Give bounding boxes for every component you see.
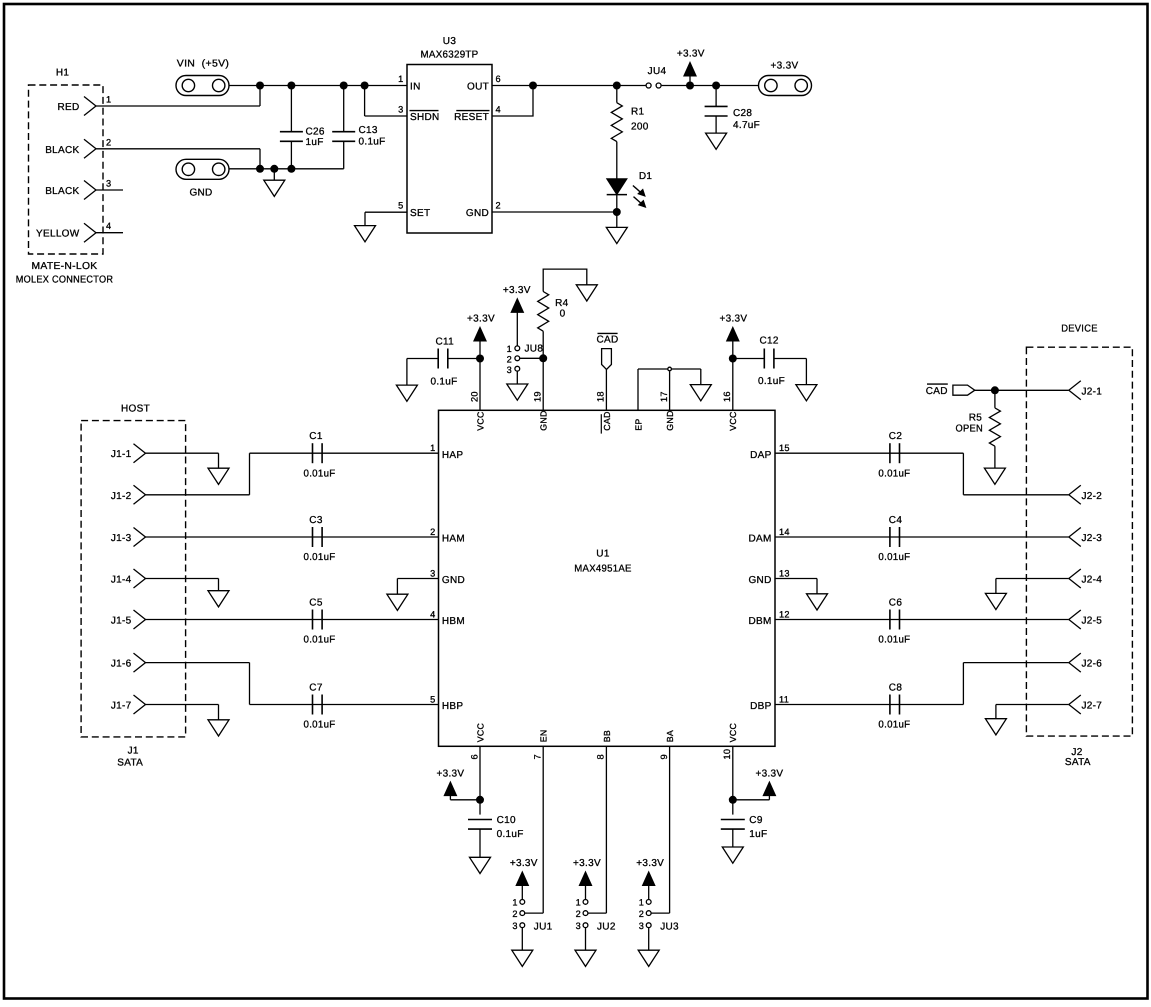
svg-text:3: 3 [576, 921, 581, 931]
svg-text:J1-4: J1-4 [111, 575, 132, 586]
svg-text:0.01uF: 0.01uF [304, 468, 336, 479]
svg-text:15: 15 [779, 443, 790, 453]
svg-text:R1: R1 [631, 107, 645, 118]
svg-text:4: 4 [430, 609, 435, 619]
svg-text:5: 5 [430, 694, 435, 704]
svg-text:4: 4 [496, 105, 501, 115]
svg-text:OUT: OUT [467, 82, 489, 93]
svg-text:2: 2 [507, 355, 512, 365]
svg-text:JU2: JU2 [597, 921, 616, 932]
svg-text:DAP: DAP [750, 450, 771, 461]
svg-text:+3.3V: +3.3V [573, 858, 601, 869]
svg-text:C13: C13 [359, 125, 378, 136]
svg-text:+3.3V: +3.3V [636, 858, 664, 869]
svg-text:0.01uF: 0.01uF [878, 552, 910, 563]
svg-text:C4: C4 [889, 515, 903, 526]
svg-text:HBP: HBP [442, 701, 463, 712]
svg-text:GND: GND [748, 575, 771, 586]
svg-text:3: 3 [398, 105, 403, 115]
svg-text:RED: RED [57, 102, 79, 113]
svg-text:6: 6 [496, 74, 501, 84]
svg-text:HBM: HBM [442, 616, 465, 627]
svg-text:C28: C28 [733, 108, 752, 119]
svg-text:0.01uF: 0.01uF [304, 552, 336, 563]
svg-text:J2-3: J2-3 [1082, 533, 1103, 544]
svg-text:VCC: VCC [475, 722, 485, 742]
svg-text:1: 1 [639, 898, 644, 908]
svg-text:EP: EP [633, 418, 643, 430]
svg-text:200: 200 [631, 122, 649, 133]
svg-text:2: 2 [512, 909, 517, 919]
svg-text:MOLEX CONNECTOR: MOLEX CONNECTOR [16, 275, 114, 286]
svg-text:2: 2 [430, 527, 435, 537]
svg-text:+3.3V: +3.3V [503, 285, 531, 296]
svg-text:J2-1: J2-1 [1082, 386, 1103, 397]
svg-text:+3.3V: +3.3V [677, 49, 705, 60]
svg-text:0.1uF: 0.1uF [359, 136, 386, 147]
svg-text:+3.3V: +3.3V [467, 314, 495, 325]
svg-text:BB: BB [602, 730, 612, 742]
svg-text:C3: C3 [309, 515, 323, 526]
svg-text:J2-7: J2-7 [1082, 701, 1103, 712]
svg-text:1: 1 [398, 74, 403, 84]
svg-text:MAX6329TP: MAX6329TP [421, 50, 479, 61]
svg-text:C9: C9 [749, 815, 763, 826]
svg-text:1: 1 [507, 344, 512, 354]
svg-text:17: 17 [659, 391, 669, 402]
svg-text:6: 6 [469, 754, 479, 759]
svg-text:0.01uF: 0.01uF [304, 720, 336, 731]
svg-text:0.01uF: 0.01uF [878, 635, 910, 646]
svg-text:IN: IN [410, 82, 421, 93]
svg-text:R5: R5 [969, 413, 983, 424]
svg-text:DBP: DBP [750, 701, 771, 712]
svg-text:VCC: VCC [728, 411, 738, 431]
svg-text:C6: C6 [889, 597, 903, 608]
svg-text:GND: GND [665, 410, 675, 430]
svg-text:EN: EN [539, 729, 549, 742]
svg-text:4: 4 [106, 221, 111, 231]
svg-text:J1-1: J1-1 [111, 449, 132, 460]
svg-text:4.7uF: 4.7uF [733, 120, 760, 131]
svg-text:J1: J1 [128, 745, 139, 756]
svg-text:C11: C11 [436, 337, 455, 348]
svg-text:+3.3V: +3.3V [436, 768, 464, 779]
svg-text:BLACK: BLACK [45, 186, 79, 197]
svg-text:3: 3 [430, 568, 435, 578]
svg-text:GND: GND [189, 188, 212, 199]
svg-text:13: 13 [779, 568, 790, 578]
svg-text:C2: C2 [889, 431, 903, 442]
svg-text:3: 3 [106, 179, 111, 189]
svg-text:J1-3: J1-3 [111, 533, 132, 544]
svg-text:0: 0 [560, 309, 566, 320]
svg-text:DEVICE: DEVICE [1061, 324, 1098, 335]
svg-text:HOST: HOST [121, 404, 150, 415]
svg-text:C12: C12 [759, 335, 778, 346]
svg-text:BLACK: BLACK [45, 145, 79, 156]
svg-text:J2-2: J2-2 [1082, 491, 1103, 502]
svg-text:J2-6: J2-6 [1082, 659, 1103, 670]
svg-text:VIN (+5V): VIN (+5V) [177, 59, 230, 70]
svg-text:JU4: JU4 [648, 66, 667, 77]
svg-text:JU8: JU8 [525, 344, 544, 355]
svg-text:GND: GND [466, 208, 489, 219]
svg-text:+3.3V: +3.3V [771, 61, 799, 72]
svg-text:C5: C5 [309, 597, 323, 608]
svg-text:2: 2 [496, 201, 501, 211]
svg-text:J2-5: J2-5 [1082, 616, 1103, 627]
svg-text:J1-6: J1-6 [111, 659, 132, 670]
svg-text:VCC: VCC [728, 722, 738, 742]
svg-text:+3.3V: +3.3V [719, 314, 747, 325]
svg-text:0.1uF: 0.1uF [758, 376, 785, 387]
svg-text:OPEN: OPEN [956, 424, 984, 435]
svg-text:J1-7: J1-7 [111, 701, 132, 712]
svg-text:1: 1 [576, 898, 581, 908]
svg-text:12: 12 [779, 609, 790, 619]
svg-text:SATA: SATA [117, 757, 143, 768]
svg-text:2: 2 [576, 909, 581, 919]
svg-text:BA: BA [665, 730, 675, 742]
svg-text:C1: C1 [309, 431, 323, 442]
svg-text:MATE-N-LOK: MATE-N-LOK [32, 261, 98, 272]
svg-text:C8: C8 [889, 682, 903, 693]
svg-text:CAD: CAD [926, 386, 948, 397]
svg-text:U3: U3 [443, 36, 457, 47]
svg-text:CAD: CAD [596, 334, 618, 345]
svg-text:3: 3 [507, 365, 512, 375]
svg-text:GND: GND [442, 575, 465, 586]
svg-text:CAD: CAD [602, 411, 612, 430]
svg-text:1uF: 1uF [306, 137, 324, 148]
svg-text:DAM: DAM [748, 534, 771, 545]
svg-text:16: 16 [722, 391, 732, 402]
svg-text:1uF: 1uF [749, 829, 767, 840]
svg-text:SHDN: SHDN [410, 112, 440, 123]
svg-text:11: 11 [779, 694, 789, 704]
svg-text:GND: GND [539, 410, 549, 430]
svg-text:C10: C10 [497, 815, 516, 826]
svg-text:0.1uF: 0.1uF [430, 377, 457, 388]
svg-text:1: 1 [106, 95, 111, 105]
svg-text:H1: H1 [56, 68, 70, 79]
svg-text:0.01uF: 0.01uF [304, 635, 336, 646]
svg-text:RESET: RESET [454, 112, 489, 123]
svg-text:YELLOW: YELLOW [36, 229, 80, 240]
svg-text:JU1: JU1 [534, 921, 553, 932]
svg-text:5: 5 [398, 201, 403, 211]
svg-text:2: 2 [639, 909, 644, 919]
svg-text:DBM: DBM [748, 616, 771, 627]
svg-text:SATA: SATA [1065, 757, 1091, 768]
svg-text:9: 9 [659, 754, 669, 759]
svg-text:U1: U1 [596, 549, 610, 560]
svg-text:20: 20 [469, 391, 479, 402]
svg-text:1: 1 [512, 898, 517, 908]
svg-text:JU3: JU3 [660, 921, 679, 932]
svg-text:D1: D1 [639, 171, 653, 182]
svg-text:3: 3 [639, 921, 644, 931]
svg-text:VCC: VCC [475, 411, 485, 431]
svg-text:C26: C26 [306, 126, 325, 137]
svg-text:3: 3 [512, 921, 517, 931]
svg-text:10: 10 [722, 749, 732, 760]
svg-text:+3.3V: +3.3V [755, 768, 783, 779]
svg-text:J1-5: J1-5 [111, 616, 132, 627]
svg-text:J1-2: J1-2 [111, 491, 132, 502]
svg-text:14: 14 [779, 527, 790, 537]
svg-text:8: 8 [596, 754, 606, 759]
svg-text:7: 7 [533, 754, 543, 759]
svg-text:HAP: HAP [442, 450, 463, 461]
svg-text:0.01uF: 0.01uF [878, 468, 910, 479]
svg-text:+3.3V: +3.3V [510, 858, 538, 869]
svg-text:R4: R4 [555, 298, 569, 309]
svg-text:C7: C7 [309, 682, 323, 693]
svg-text:2: 2 [106, 137, 111, 147]
svg-text:HAM: HAM [442, 534, 465, 545]
svg-text:18: 18 [596, 391, 606, 402]
svg-text:0.01uF: 0.01uF [878, 720, 910, 731]
svg-text:SET: SET [410, 208, 430, 219]
svg-text:1: 1 [430, 443, 435, 453]
svg-text:J2-4: J2-4 [1082, 575, 1103, 586]
svg-text:19: 19 [533, 391, 543, 402]
svg-text:0.1uF: 0.1uF [497, 829, 524, 840]
svg-text:MAX4951AE: MAX4951AE [574, 564, 632, 575]
